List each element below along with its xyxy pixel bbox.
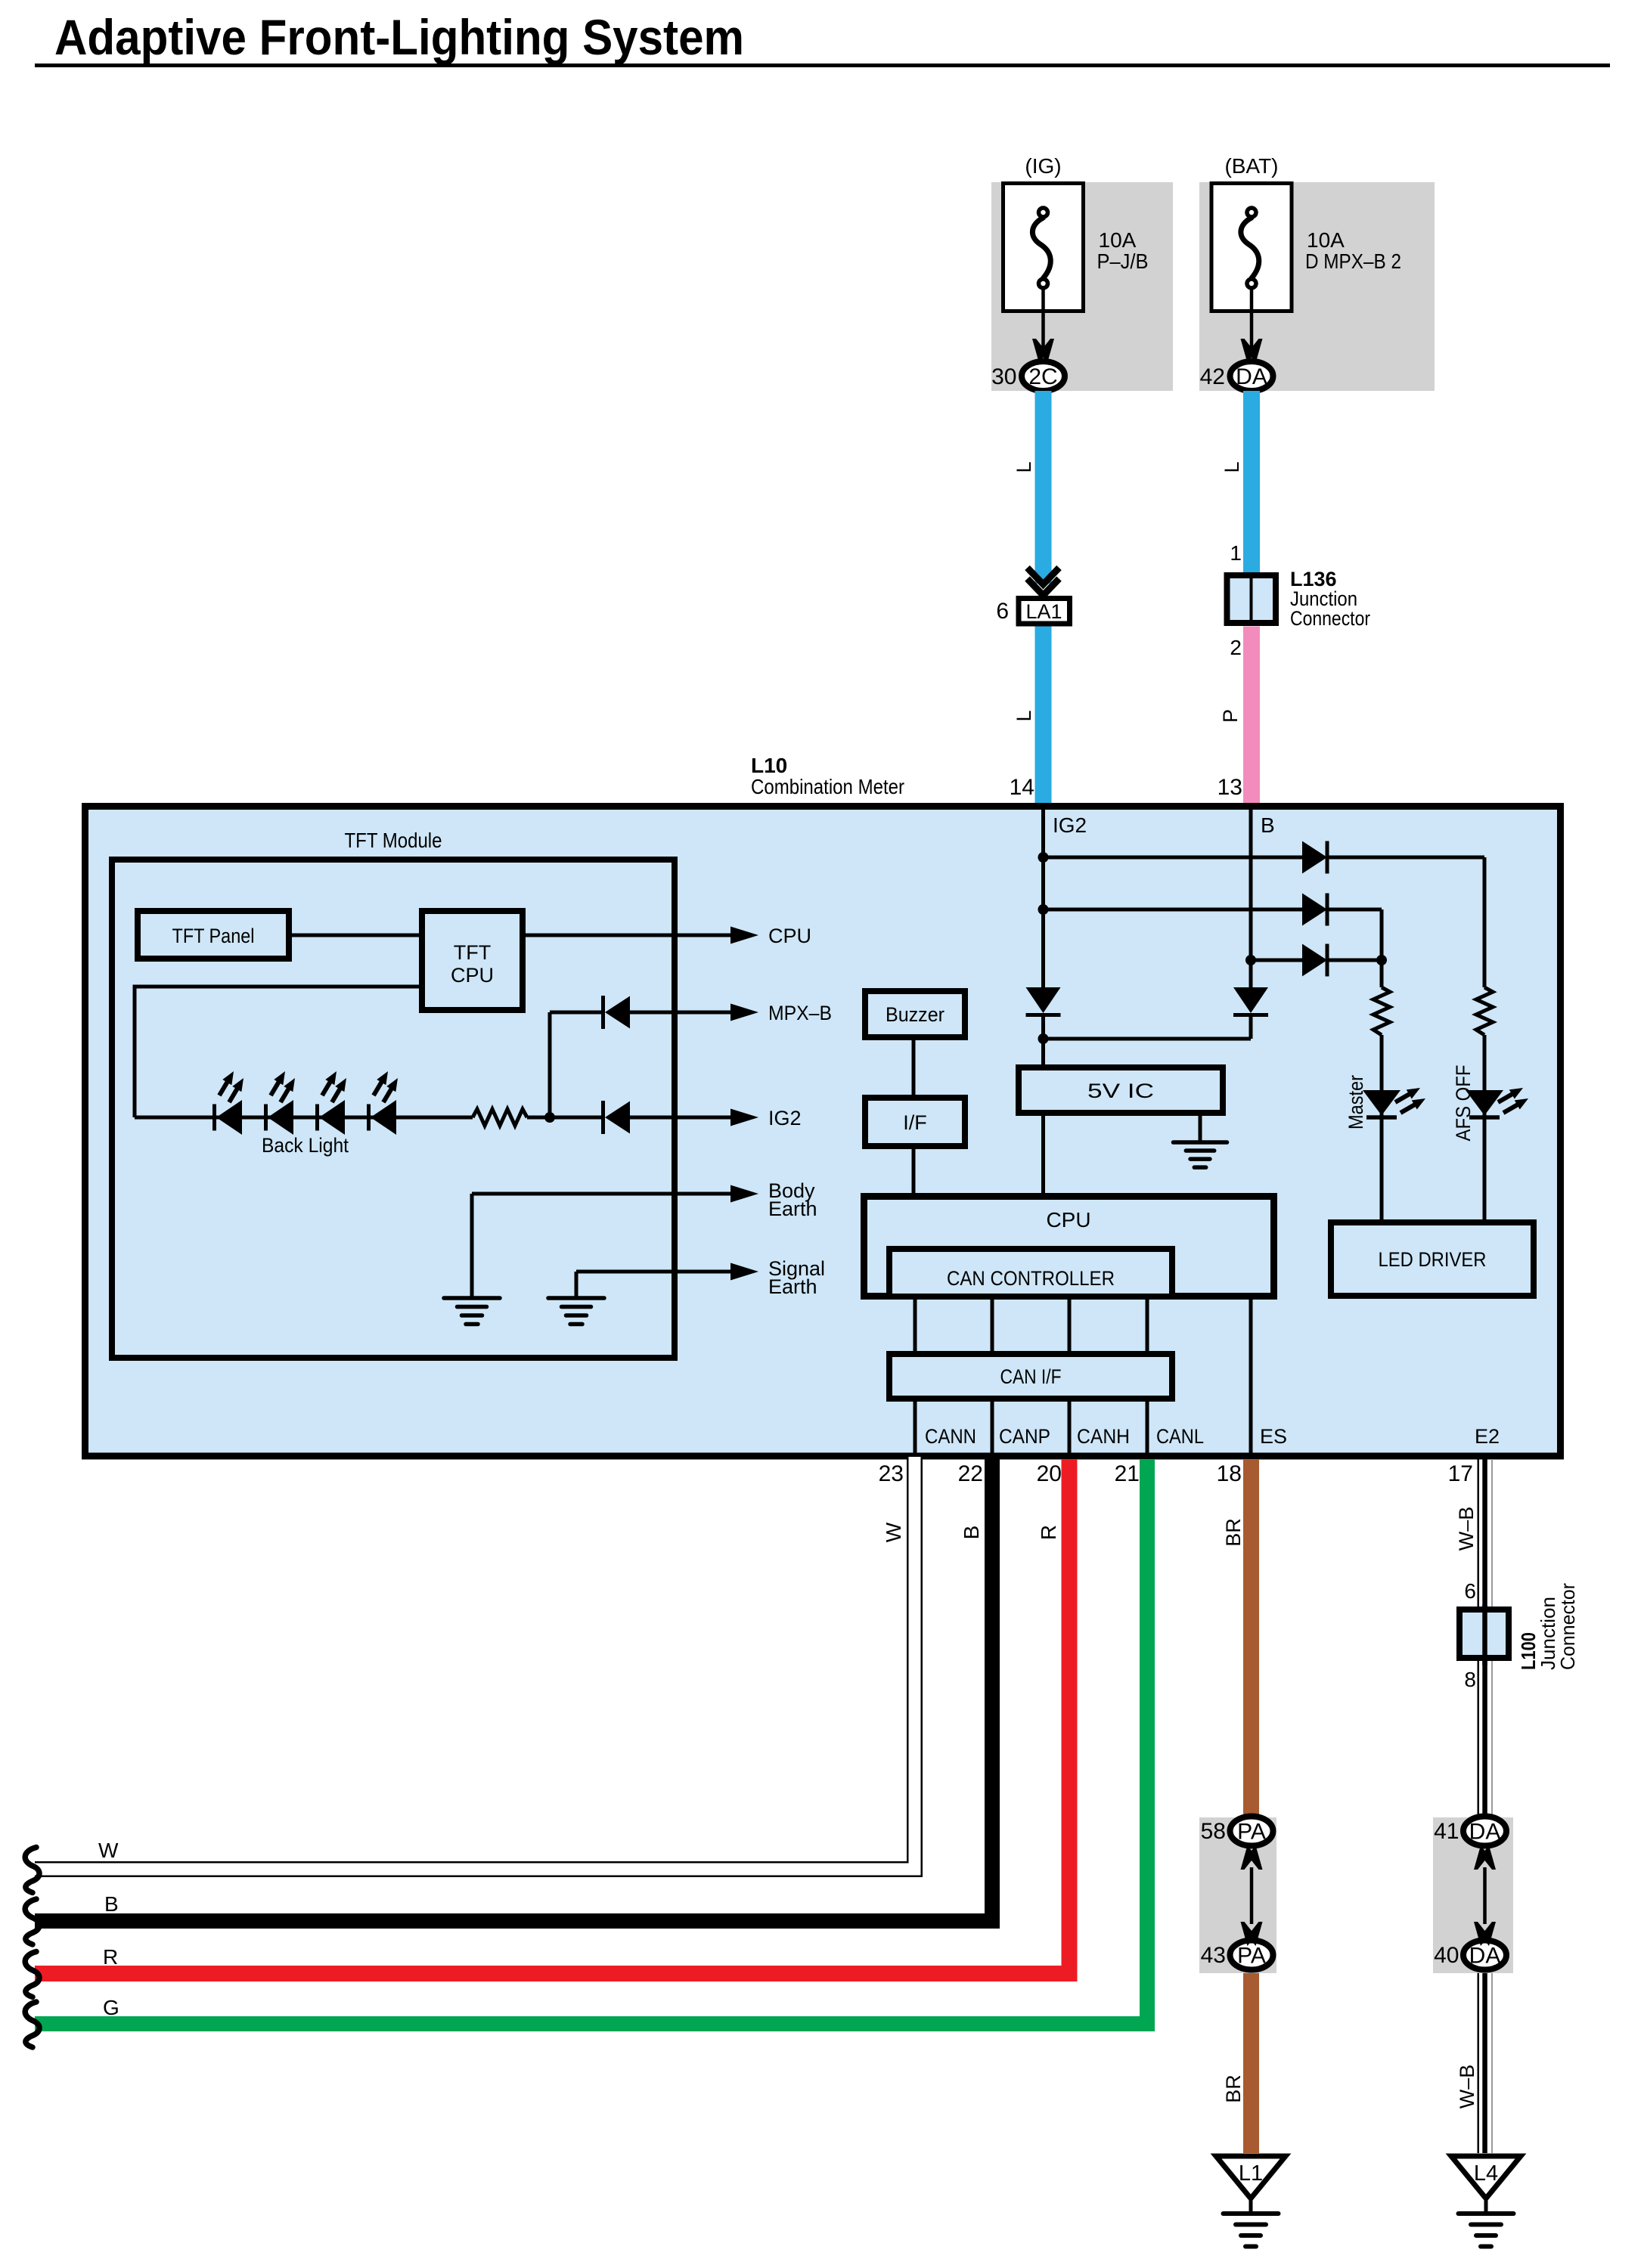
- svg-text:LED DRIVER: LED DRIVER: [1379, 1248, 1487, 1271]
- svg-text:L: L: [1221, 461, 1243, 472]
- svg-text:TFT Panel: TFT Panel: [172, 925, 255, 947]
- svg-text:41: 41: [1434, 1819, 1459, 1844]
- svg-text:CPU: CPU: [1046, 1208, 1090, 1232]
- svg-text:1: 1: [1230, 541, 1242, 565]
- svg-text:W–B: W–B: [1455, 1507, 1478, 1551]
- svg-text:R: R: [1037, 1525, 1060, 1540]
- svg-text:TFT Module: TFT Module: [345, 829, 442, 852]
- svg-text:AFS OFF: AFS OFF: [1452, 1065, 1475, 1142]
- svg-text:13: 13: [1217, 775, 1242, 800]
- svg-text:LA1: LA1: [1025, 600, 1062, 623]
- svg-text:23: 23: [879, 1461, 904, 1486]
- svg-text:Connector: Connector: [1290, 607, 1370, 630]
- svg-text:ES: ES: [1260, 1425, 1287, 1448]
- svg-text:10A: 10A: [1307, 228, 1345, 252]
- svg-text:6: 6: [996, 599, 1009, 624]
- svg-text:P: P: [1219, 709, 1242, 723]
- svg-text:CANL: CANL: [1156, 1425, 1204, 1448]
- svg-text:DA: DA: [1236, 364, 1267, 389]
- svg-text:MPX–B: MPX–B: [768, 1002, 832, 1024]
- svg-text:Combination Meter: Combination Meter: [751, 775, 904, 798]
- svg-text:CAN I/F: CAN I/F: [1000, 1365, 1062, 1388]
- svg-text:6: 6: [1464, 1579, 1476, 1603]
- svg-text:Adaptive Front-Lighting System: Adaptive Front-Lighting System: [54, 9, 744, 65]
- svg-text:21: 21: [1115, 1461, 1140, 1486]
- svg-text:(IG): (IG): [1025, 154, 1061, 178]
- svg-text:CPU: CPU: [768, 925, 811, 947]
- svg-text:2C: 2C: [1028, 364, 1057, 389]
- svg-text:L: L: [1013, 461, 1035, 472]
- svg-text:18: 18: [1217, 1461, 1242, 1486]
- svg-text:40: 40: [1434, 1943, 1459, 1968]
- svg-text:L1: L1: [1239, 2161, 1263, 2186]
- svg-text:CAN CONTROLLER: CAN CONTROLLER: [947, 1267, 1115, 1290]
- svg-text:CANP: CANP: [999, 1425, 1050, 1448]
- svg-text:L: L: [1013, 710, 1035, 721]
- svg-text:B: B: [1261, 813, 1275, 837]
- svg-text:L10: L10: [751, 754, 787, 777]
- svg-text:Earth: Earth: [768, 1275, 817, 1298]
- svg-text:43: 43: [1201, 1943, 1226, 1968]
- svg-text:5V IC: 5V IC: [1087, 1080, 1154, 1102]
- svg-text:58: 58: [1201, 1819, 1226, 1844]
- svg-text:BR: BR: [1222, 1518, 1245, 1547]
- svg-text:E2: E2: [1475, 1425, 1500, 1448]
- svg-text:P–J/B: P–J/B: [1097, 249, 1149, 273]
- svg-text:DA: DA: [1469, 1820, 1501, 1845]
- svg-text:10A: 10A: [1099, 228, 1137, 252]
- svg-text:Connector: Connector: [1556, 1583, 1579, 1670]
- svg-text:W: W: [882, 1522, 905, 1542]
- svg-text:L4: L4: [1474, 2161, 1498, 2186]
- svg-text:20: 20: [1037, 1461, 1062, 1486]
- svg-text:W–B: W–B: [1456, 2065, 1478, 2109]
- svg-text:D MPX–B 2: D MPX–B 2: [1305, 249, 1401, 273]
- svg-text:Buzzer: Buzzer: [886, 1003, 945, 1026]
- svg-text:2: 2: [1230, 636, 1242, 659]
- svg-text:IG2: IG2: [1053, 813, 1087, 837]
- svg-text:W: W: [98, 1839, 119, 1862]
- svg-text:42: 42: [1200, 364, 1225, 389]
- svg-text:Master: Master: [1345, 1075, 1367, 1129]
- svg-text:I/F: I/F: [903, 1111, 927, 1134]
- svg-text:R: R: [103, 1945, 118, 1969]
- svg-text:B: B: [104, 1892, 119, 1916]
- svg-text:TFT: TFT: [454, 941, 491, 964]
- svg-text:30: 30: [991, 364, 1016, 389]
- svg-text:22: 22: [958, 1461, 983, 1486]
- svg-text:IG2: IG2: [768, 1107, 802, 1129]
- svg-text:BR: BR: [1222, 2074, 1245, 2103]
- svg-text:CANN: CANN: [925, 1425, 976, 1448]
- svg-text:PA: PA: [1237, 1820, 1266, 1845]
- svg-text:(BAT): (BAT): [1224, 154, 1278, 178]
- svg-text:PA: PA: [1237, 1944, 1266, 1969]
- svg-text:G: G: [103, 1996, 119, 2019]
- svg-text:B: B: [960, 1526, 983, 1540]
- svg-text:17: 17: [1448, 1461, 1473, 1486]
- svg-text:8: 8: [1464, 1668, 1476, 1691]
- svg-text:Back Light: Back Light: [262, 1134, 349, 1157]
- svg-text:CANH: CANH: [1077, 1425, 1130, 1448]
- svg-text:DA: DA: [1469, 1944, 1501, 1969]
- svg-text:14: 14: [1010, 775, 1034, 800]
- svg-text:Earth: Earth: [768, 1198, 817, 1220]
- svg-text:CPU: CPU: [451, 964, 494, 987]
